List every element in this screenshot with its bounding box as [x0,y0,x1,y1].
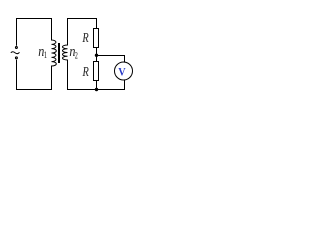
wire right-loop bottom [67,89,125,91]
svg-text:2: 2 [75,52,78,62]
wire between resistors [96,48,98,62]
resistor R top box [94,29,99,48]
wire left-loop left lower [16,60,18,90]
node junction dot bottom [95,88,98,91]
wire voltmeter top vertical [124,55,126,62]
wire left-loop left upper [16,18,18,46]
transformer core [58,43,60,63]
wire resistor branch upper [96,18,98,29]
svg-text:V: V [118,65,126,78]
wire right-loop top [67,18,97,20]
wire voltmeter top horizontal [97,55,126,57]
wire resistor branch lower [96,81,98,91]
inductor n2 secondary coil [63,18,68,90]
node junction dot mid [95,54,98,57]
svg-text:R: R [82,64,89,79]
wire left-loop bottom [16,89,52,91]
wire left-loop top [16,18,52,20]
resistor R bottom box [94,62,99,81]
label n2 [69,43,78,62]
wire voltmeter bottom vertical [124,80,126,90]
label n1 [38,43,47,61]
inductor n1 primary coil [52,18,57,90]
voltmeter circle [115,62,133,80]
svg-text:R: R [82,30,89,45]
AC source tilde [11,52,20,54]
terminal dot upper [15,47,17,49]
terminal dot lower [15,57,17,59]
svg-text:1: 1 [44,51,48,61]
